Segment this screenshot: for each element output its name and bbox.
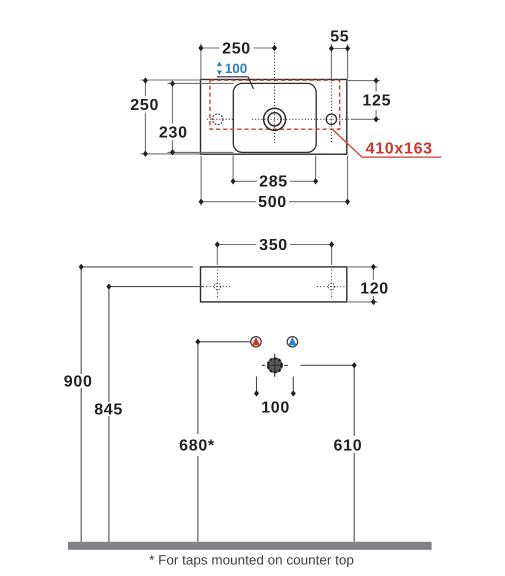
red leader 410x163 xyxy=(333,130,441,157)
dim 350: extension lines xyxy=(216,245,218,265)
svg-text:125: 125 xyxy=(362,93,391,110)
vertical centerline through right hole xyxy=(330,79,332,144)
dim 845: leader xyxy=(109,286,203,288)
blue depth arrows xyxy=(217,62,222,67)
left tap hole (dotted) xyxy=(212,114,223,125)
dim 285: extension lines xyxy=(232,156,234,182)
svg-text:610: 610 xyxy=(334,438,363,455)
svg-text:350: 350 xyxy=(259,237,288,254)
svg-text:680*: 680* xyxy=(179,438,215,455)
svg-text:250: 250 xyxy=(130,97,159,114)
dim 610: leader xyxy=(301,364,355,366)
svg-text:410x163: 410x163 xyxy=(366,141,433,158)
dim 250 left: line xyxy=(144,81,146,97)
dim 100 taps spacing xyxy=(256,377,258,393)
svg-text:55: 55 xyxy=(330,29,349,46)
dim 55: line xyxy=(331,48,347,50)
horizontal centerline through holes xyxy=(207,118,233,120)
dim 250 top: line xyxy=(201,47,220,49)
dim 680: leader xyxy=(198,341,251,343)
top view basin outline xyxy=(201,80,347,155)
front view right fixing hole xyxy=(328,283,334,289)
right tap hole xyxy=(326,114,336,124)
cold tap symbol xyxy=(287,337,297,347)
dim 900: leader xyxy=(81,266,193,268)
dim 285: line xyxy=(233,180,257,182)
svg-text:285: 285 xyxy=(259,174,288,191)
dim 120: line xyxy=(372,267,374,280)
floor bar xyxy=(68,542,432,550)
svg-text:500: 500 xyxy=(258,194,287,211)
svg-text:230: 230 xyxy=(159,125,188,142)
svg-text:* For taps mounted on counter: * For taps mounted on counter top xyxy=(149,553,354,568)
dim 500: line xyxy=(201,201,256,203)
red dashed tap/cutout area 410x163 xyxy=(210,80,340,129)
dim 55: extension lines xyxy=(330,44,332,79)
svg-text:100: 100 xyxy=(261,399,290,416)
svg-text:250: 250 xyxy=(222,41,251,58)
drain inner circle xyxy=(268,113,281,126)
dim 350: line xyxy=(217,244,256,246)
hot tap symbol xyxy=(251,337,261,347)
front view left fixing hole xyxy=(214,283,220,289)
dim 230: extension lines xyxy=(168,82,234,84)
svg-text:900: 900 xyxy=(64,374,93,391)
svg-text:120: 120 xyxy=(360,281,389,298)
vertical centerline through drain xyxy=(274,43,276,143)
dim 250 top: extension line xyxy=(200,44,202,80)
front view outline xyxy=(201,267,347,302)
drain outer circle xyxy=(264,108,286,130)
svg-text:100: 100 xyxy=(225,61,248,76)
dim 500: extension lines xyxy=(200,156,202,206)
dim 125: extension lines xyxy=(346,80,380,82)
dim 125: line xyxy=(375,81,377,92)
dim 120: extension lines xyxy=(348,266,377,268)
dim 230: line xyxy=(172,84,174,124)
dim 250 left: extension lines xyxy=(141,79,201,81)
waste drain symbol xyxy=(267,358,282,373)
svg-text:845: 845 xyxy=(94,402,123,419)
blue 100 leader line xyxy=(217,77,254,89)
top view inner bowl xyxy=(233,83,316,152)
